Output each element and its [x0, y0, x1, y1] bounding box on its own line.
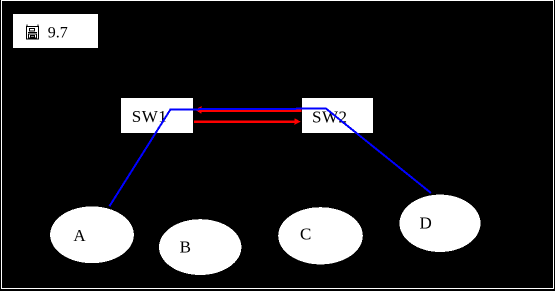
svg-text:B: B [180, 238, 191, 257]
svg-text:C: C [300, 225, 311, 244]
svg-text:A: A [73, 226, 86, 245]
svg-text:9.7: 9.7 [48, 24, 68, 41]
svg-text:D: D [420, 214, 432, 233]
